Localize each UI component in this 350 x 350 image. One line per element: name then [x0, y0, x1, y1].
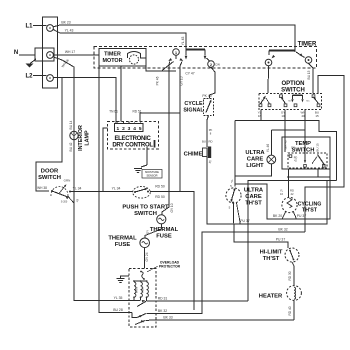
svg-text:BU 15: BU 15: [316, 143, 320, 152]
wire L2 to dry control: [53, 78, 116, 125]
svg-text:GY 10: GY 10: [180, 76, 184, 85]
wire cycle signal to chime: [207, 116, 209, 148]
svg-text:MOISTURE: MOISTURE: [145, 170, 159, 174]
wire option to temp switch: [284, 110, 286, 153]
wire timer motor to contact CY47: [140, 58, 176, 71]
wire YL34 door to start switch: [70, 191, 133, 193]
svg-text:NO: NO: [288, 101, 292, 103]
motor ground: [121, 276, 130, 279]
option switch contact 1: [259, 104, 262, 107]
svg-text:YL 46: YL 46: [266, 144, 270, 152]
wire RD31 motor out: [147, 300, 249, 302]
svg-text:FUSE: FUSE: [115, 242, 131, 248]
svg-text:PUSH TO START: PUSH TO START: [122, 205, 169, 211]
motor centrifugal switch: [133, 296, 135, 298]
svg-text:1: 1: [116, 126, 119, 132]
svg-text:ULTRA: ULTRA: [244, 188, 264, 194]
motor windings: [133, 280, 148, 282]
svg-text:BU 14: BU 14: [69, 120, 73, 129]
svg-text:SIGNAL: SIGNAL: [183, 107, 204, 113]
svg-text:YL 43: YL 43: [65, 29, 74, 33]
svg-text:L1: L1: [25, 24, 33, 30]
wire fuse2 to motor: [144, 248, 146, 269]
timer contact 1: [173, 49, 180, 56]
option switch contact 4: [317, 104, 320, 107]
wire YL43 L1 to timer: [53, 30, 186, 50]
svg-text:YL 43: YL 43: [181, 37, 185, 46]
wire light to ultra care thermostat: [235, 164, 271, 176]
neutral terminal box: [35, 48, 54, 61]
svg-text:RD 40: RD 40: [288, 306, 292, 315]
svg-text:BK 33: BK 33: [163, 315, 172, 319]
svg-text:4: 4: [133, 126, 136, 132]
svg-text:TIMER: TIMER: [298, 42, 317, 48]
temp switch contact B: [304, 155, 306, 161]
wire option to temp switch and lamp: [304, 110, 306, 155]
cycling thermostat housing: [235, 177, 330, 219]
wire PK46 contact to thermal fuse: [162, 62, 170, 215]
svg-text:RD 50: RD 50: [155, 185, 165, 189]
svg-text:LAMP: LAMP: [85, 130, 91, 146]
svg-text:CHIME: CHIME: [184, 152, 203, 158]
motor box: [129, 269, 156, 328]
wire temp switch leg right: [317, 169, 319, 177]
svg-text:15: 15: [315, 114, 319, 118]
svg-text:CW: CW: [215, 63, 220, 67]
svg-text:BU 28: BU 28: [113, 308, 123, 312]
svg-text:ELECTRONIC: ELECTRONIC: [114, 136, 151, 142]
svg-text:SWITCH: SWITCH: [281, 88, 305, 94]
svg-text:YL 34: YL 34: [73, 187, 82, 191]
svg-text:NC: NC: [306, 101, 310, 103]
wire temp box to cycling box: [329, 169, 331, 177]
wire fuse1 to fuse2: [145, 224, 161, 238]
wire hi-limit to heater: [292, 262, 294, 286]
timer terminal 2: [208, 61, 215, 68]
svg-text:PU 37: PU 37: [240, 219, 250, 223]
wire RD50: [150, 192, 194, 311]
svg-text:CARE: CARE: [245, 194, 262, 200]
wire dry control pin5 to timer contact: [140, 113, 180, 122]
svg-text:SWITCH: SWITCH: [134, 211, 157, 217]
svg-text:BK 32: BK 32: [278, 228, 287, 232]
svg-text:CY 47: CY 47: [185, 72, 194, 76]
wire WH36 neutral to lamp: [53, 57, 140, 301]
svg-text:BU: BU: [202, 140, 206, 144]
svg-text:GY: GY: [146, 230, 150, 234]
svg-text:YL: YL: [230, 179, 234, 183]
timer contact 4: [294, 51, 296, 53]
svg-text:PK 46: PK 46: [156, 76, 160, 85]
console outline: [36, 78, 62, 192]
svg-text:L2: L2: [25, 74, 33, 80]
svg-text:TH'ST: TH'ST: [245, 201, 262, 207]
svg-text:YL 35: YL 35: [114, 296, 123, 300]
timer contact 3: [269, 50, 295, 52]
svg-text:S-200: S-200: [61, 201, 68, 204]
wire timer motor to dry control: [120, 66, 122, 122]
svg-text:NC: NC: [261, 100, 265, 102]
wire ultra care thermostat to hi-limit: [234, 204, 289, 248]
svg-text:MAIN: MAIN: [134, 287, 138, 294]
svg-text:RD 50: RD 50: [155, 195, 165, 199]
temp switch contact C: [318, 155, 324, 164]
timer motor: [99, 49, 146, 67]
svg-text:GY 24: GY 24: [145, 252, 149, 261]
wire door switch to lamp leg: [68, 197, 74, 204]
svg-text:TIMER: TIMER: [104, 52, 121, 58]
temp switch: [282, 137, 330, 169]
svg-text:PU 37: PU 37: [297, 214, 307, 218]
svg-text:3: 3: [128, 126, 131, 132]
svg-text:PK 40: PK 40: [202, 94, 211, 98]
svg-text:WH 38: WH 38: [37, 186, 47, 190]
svg-text:TEMP: TEMP: [295, 141, 311, 147]
svg-text:FUSE: FUSE: [156, 234, 172, 240]
svg-text:1: 1: [175, 51, 177, 55]
svg-text:THERMAL: THERMAL: [108, 236, 137, 242]
svg-text:HI-LIMIT: HI-LIMIT: [260, 250, 283, 256]
svg-text:BU 42: BU 42: [69, 142, 73, 151]
svg-text:SWITCH: SWITCH: [38, 175, 61, 181]
svg-text:ULTRA: ULTRA: [245, 150, 265, 156]
wire control housing run: [235, 121, 337, 181]
wire BK32 motor out: [147, 232, 306, 314]
svg-text:BK 23: BK 23: [61, 21, 70, 25]
option switch contact 3: [293, 94, 303, 96]
wire dry control to start circuit: [103, 128, 108, 192]
interior lamp: [70, 131, 78, 139]
push to start switch: [133, 187, 151, 199]
svg-text:CYCLING: CYCLING: [298, 202, 322, 208]
svg-text:PROTECTOR: PROTECTOR: [159, 264, 181, 268]
wire temp switch to cycling thermostat: [288, 169, 290, 198]
svg-text:TH'ST: TH'ST: [302, 208, 318, 214]
svg-text:OPTION: OPTION: [281, 81, 304, 87]
svg-text:GRN: GRN: [64, 179, 71, 183]
option switch contact 2: [284, 104, 287, 107]
wire timer to option switch B: [309, 63, 314, 93]
svg-text:40: 40: [301, 114, 305, 118]
svg-text:GY 10: GY 10: [170, 203, 174, 212]
svg-text:PU 37: PU 37: [276, 238, 286, 242]
temp switch contact A: [289, 155, 292, 158]
wire option to ultra care circuit: [260, 110, 262, 121]
svg-text:SENSOR: SENSOR: [147, 174, 158, 178]
thermal fuse 2: [140, 238, 150, 248]
svg-text:INTERIOR: INTERIOR: [78, 125, 84, 151]
svg-text:10: 10: [281, 114, 285, 118]
terminal block TB1: [43, 17, 58, 88]
svg-text:RD 31: RD 31: [158, 297, 168, 301]
thermal fuse 1: [157, 215, 166, 224]
svg-text:HEATER: HEATER: [259, 294, 283, 300]
wire CY10 contact to start circuit: [180, 62, 182, 192]
svg-text:TN 61: TN 61: [109, 110, 118, 114]
svg-text:CYCLE: CYCLE: [184, 101, 203, 107]
wire PK40 timer to cycle signal: [210, 67, 216, 98]
svg-text:BK 20: BK 20: [273, 214, 282, 218]
svg-text:16: 16: [258, 114, 262, 118]
svg-text:MOTOR: MOTOR: [103, 58, 123, 64]
wire chime to thermostats PU37: [207, 157, 327, 224]
svg-text:TH'ST: TH'ST: [263, 256, 280, 262]
svg-text:N: N: [14, 50, 18, 56]
moisture sensor: [146, 147, 148, 165]
svg-text:16: 16: [280, 192, 283, 196]
wire BK33 motor to heater: [146, 319, 294, 321]
svg-text:WH 17: WH 17: [65, 50, 75, 54]
ground (neutral): [30, 59, 36, 64]
svg-text:BK 32: BK 32: [158, 309, 167, 313]
wire lamp feed: [271, 129, 305, 131]
timer contact 2 (cam): [185, 50, 187, 56]
timer assembly box: [94, 47, 317, 69]
wire BK23 L1 to timer: [53, 25, 295, 51]
wire WH17 neutral run: [53, 55, 132, 313]
svg-text:DOOR: DOOR: [41, 169, 59, 175]
svg-text:AUX: AUX: [141, 287, 145, 293]
svg-text:LIGHT: LIGHT: [246, 163, 264, 169]
svg-text:2: 2: [210, 63, 212, 67]
svg-text:BU 15: BU 15: [307, 70, 311, 79]
wire timer to option switch A: [267, 66, 270, 93]
svg-text:2: 2: [122, 126, 125, 132]
svg-text:RD 30: RD 30: [288, 271, 292, 280]
svg-text:CARE: CARE: [247, 157, 264, 163]
wire heater to motor BK33: [293, 300, 295, 320]
svg-text:RD: RD: [208, 140, 212, 144]
wire RD31 leg: [248, 181, 337, 302]
wire ultra care tap: [237, 203, 241, 224]
svg-text:42: 42: [291, 192, 294, 196]
svg-text:5: 5: [139, 126, 142, 132]
svg-text:YL 34: YL 34: [112, 187, 121, 191]
svg-text:WH 40: WH 40: [284, 140, 288, 150]
svg-text:GY: GY: [291, 146, 295, 150]
wire option riser to timer feed: [305, 76, 344, 233]
electronic dry control: [108, 122, 159, 150]
